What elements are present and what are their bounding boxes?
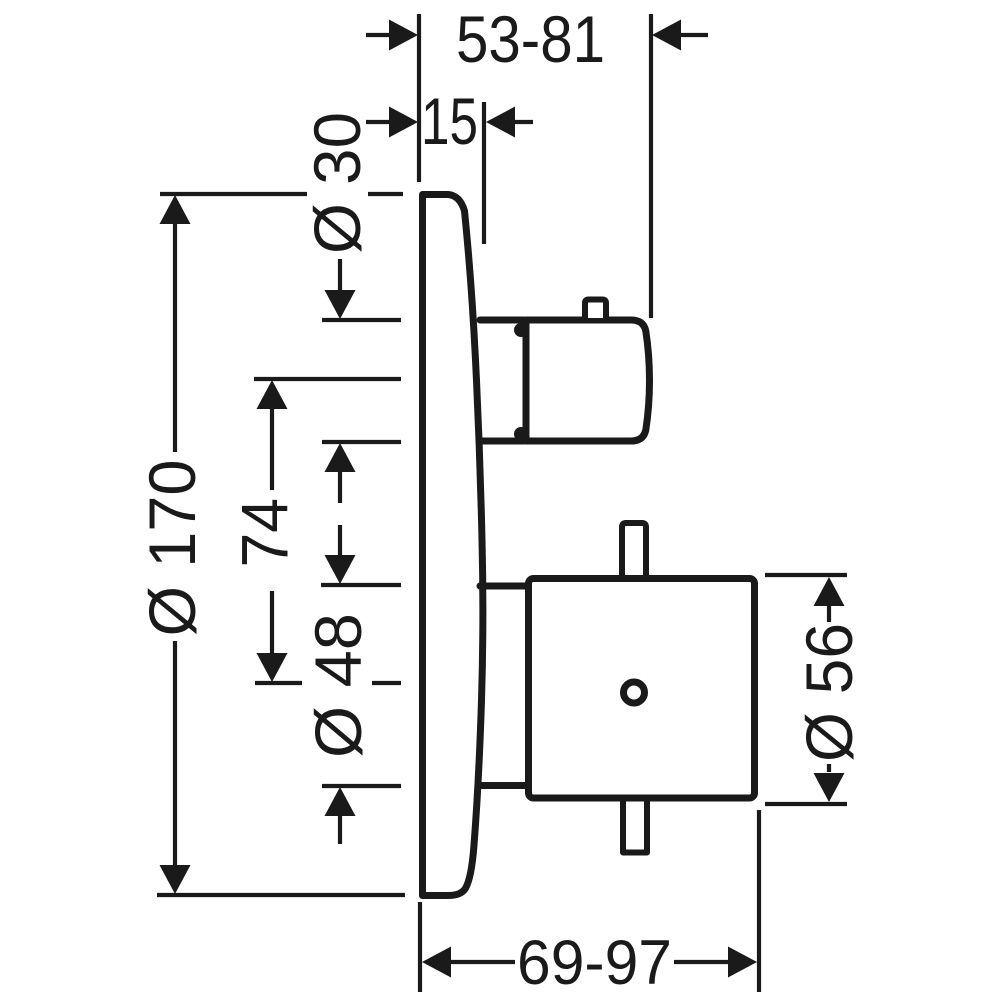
dim 69-97 ext right [757,810,761,992]
wall plate (side profile) [423,195,483,896]
dim O170 ext top [160,192,403,196]
knob top pin [585,300,606,319]
lower neck top line [480,583,528,590]
dim 74 arrowhead down [257,653,288,682]
dim 53-81 ext line right [649,14,653,318]
dim 53-81 arrow tails [366,33,708,37]
dim O48 arrowhead down [325,555,356,584]
thermostat knob body [526,320,650,441]
square valve handle [529,579,755,799]
dim O56 ext top [765,573,847,577]
upper neck bottom line [479,438,524,445]
upper knob nub top [514,323,528,337]
dim 15 arrowhead left [389,107,418,138]
svg-text:Ø 30: Ø 30 [300,112,374,254]
dim O48 tick top [321,583,401,587]
dim 15 ext line right [482,102,486,244]
dim O170 ext bottom [157,893,405,897]
dim 15 arrow tails [366,120,533,124]
square handle top pin [622,523,646,578]
dim 15 arrowhead right [486,107,515,138]
svg-text:Ø 170: Ø 170 [135,460,209,637]
dim 74 ext top [254,377,401,381]
dim O30 tick bottom [322,440,401,444]
dim O170 stems [173,222,177,867]
dim O30 arrowhead up [325,443,356,472]
svg-text:Ø 48: Ø 48 [301,613,375,758]
dim 53-81 arrowhead left [389,20,418,51]
upper neck top line [480,317,524,324]
dim 69-97 arrowhead right [728,947,757,978]
dim O170 arrowhead up [160,195,191,224]
handle center hole [624,682,645,703]
svg-text:69-97: 69-97 [517,928,672,998]
dim 53-81 arrowhead right [652,20,681,51]
dim O30 leader stems [338,259,342,503]
dim 69-97 arrowhead left [422,947,451,978]
dim O56 stems [827,604,831,772]
dim O48 leader stems [338,525,342,844]
dim O56 ext bottom [765,802,847,806]
dim 69-97 ext left [418,902,422,992]
svg-text:74: 74 [228,498,302,568]
dim 53-81 ext line left [417,14,421,182]
dim O56 arrowhead up [814,577,845,606]
dim O48 tick bottom [322,784,401,788]
dim O56 arrowhead down [814,773,845,802]
dim O30 tick top [322,318,401,322]
svg-text:53-81: 53-81 [456,2,605,76]
svg-text:15: 15 [421,84,478,158]
dim O170 arrowhead down [160,865,191,894]
dim 74 arrowhead up [257,380,288,409]
dim O30 arrowhead down [325,290,356,319]
dim 69-97 lines [447,960,729,964]
square handle bottom pin [623,799,647,853]
dim 74 ext bottom [255,681,401,685]
svg-text:Ø 56: Ø 56 [792,623,866,762]
lower neck bottom line [478,782,528,789]
dim 74 stems [270,407,274,656]
dim O48 arrowhead up [325,787,356,816]
upper knob nub bottom [514,427,528,441]
